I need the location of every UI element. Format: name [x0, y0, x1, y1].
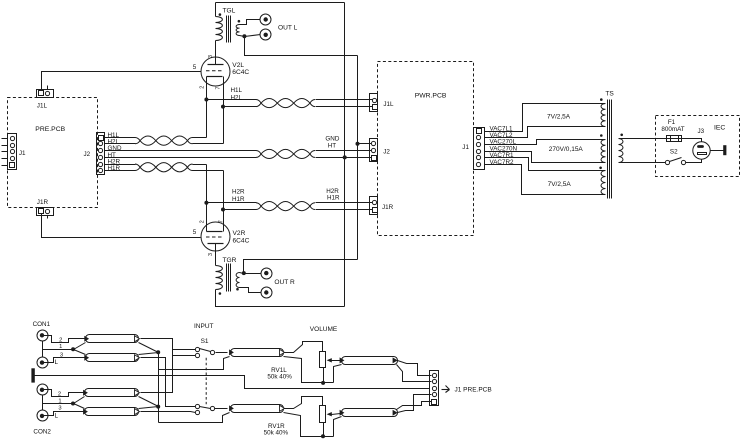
tube V2L cathode [207, 77, 224, 144]
svg-text:50k 40%: 50k 40% [264, 429, 289, 436]
svg-text:J1: J1 [19, 150, 26, 157]
wire TS primary to S2 [619, 162, 666, 164]
wire A2 to S1 pole2 [141, 358, 196, 407]
svg-text:7: 7 [216, 87, 222, 90]
svg-text:H1R: H1R [108, 165, 121, 172]
tube V2L plate [208, 41, 224, 65]
node cable shield junction left top [156, 350, 160, 354]
transformer TGR primary winding [216, 266, 345, 307]
transformer TGL core [227, 16, 231, 43]
connector J1R PRE.PCB [37, 208, 54, 216]
node output ground junction at J2 [356, 142, 360, 146]
wire HT right vertical [344, 3, 346, 307]
wire C1 signal to RV1L top [285, 342, 323, 353]
wire shield vertical bus [158, 353, 160, 423]
connector OUT L bottom jack [260, 29, 271, 40]
svg-text:7: 7 [219, 220, 225, 223]
wire S1 pole1 to cable C1 [216, 352, 228, 354]
svg-text:J1L: J1L [37, 103, 48, 110]
svg-text:2: 2 [199, 86, 205, 89]
wire fuse to J3 [682, 139, 702, 142]
wire D1 signal to J1 pin1 [398, 361, 432, 376]
wire D1 shield to J1 pin2 [397, 365, 432, 382]
TS polarity dot sec2 [600, 134, 603, 137]
wire CON2 ground link [42, 396, 44, 411]
IEC inlet box outline [656, 116, 740, 177]
fuse F1 [667, 136, 682, 142]
cable C1 shielded [231, 349, 284, 357]
connector J1R PWR.PCB [370, 197, 378, 215]
wire HT top rail [216, 2, 345, 4]
wire VAC7R2 [485, 165, 606, 195]
tube V2L grid [206, 70, 224, 72]
potentiometer RV1R [320, 406, 326, 423]
cable D1 shielded [342, 357, 398, 365]
svg-text:3: 3 [58, 406, 61, 412]
connector CON2 jack top [37, 384, 48, 395]
wire RV1L bottom lead [323, 368, 325, 383]
node OUT L ground junction [242, 34, 246, 38]
wire A1 B1 to S1 pole1 [141, 339, 173, 393]
svg-text:3: 3 [60, 352, 63, 358]
PRE.PCB board outline [8, 98, 98, 208]
connector CON2 jack bottom [37, 410, 48, 421]
wire C2 shield to ground rail [284, 413, 334, 437]
svg-text:J1L: J1L [383, 101, 394, 108]
node cable shield junction left bottom [156, 405, 160, 409]
transformer TS secondary 270V [601, 140, 606, 163]
connector CON1 jack top [37, 330, 48, 341]
wire J1R stub [47, 216, 49, 219]
wire S1 pole2 to cable C2 [215, 408, 228, 410]
cable C2 shielded [231, 405, 284, 413]
tube V2L envelope [201, 57, 230, 86]
svg-text:L: L [55, 359, 59, 366]
svg-text:HT: HT [328, 143, 337, 150]
svg-text:2: 2 [199, 220, 205, 223]
cable B1 shielded [85, 389, 139, 397]
wire S2 to J3 [686, 160, 702, 163]
transformer TGR core [227, 264, 231, 292]
node RV1R ground junction [321, 434, 325, 438]
wire OUT L bottom jack to junction [245, 35, 261, 37]
wire twisted pair H2R H1R to PWR.PCB [207, 202, 373, 211]
svg-text:50k 40%: 50k 40% [267, 373, 292, 380]
svg-text:H1L: H1L [231, 87, 243, 94]
svg-text:J1: J1 [462, 144, 469, 151]
wire CON1 shield diagonals [74, 343, 86, 355]
wire VAC270N [485, 152, 606, 163]
wiper RV1L [327, 358, 341, 362]
connector CON1 jack bottom [37, 357, 48, 368]
connector OUT L top jack [260, 14, 271, 25]
svg-text:7V/2,5A: 7V/2,5A [548, 181, 572, 188]
cable B2 shielded [85, 408, 139, 416]
svg-text:J1R: J1R [382, 204, 394, 211]
svg-text:H1R: H1R [327, 195, 340, 202]
svg-text:H1R: H1R [232, 196, 245, 203]
wire twisted pair H1L H2L to PWR.PCB [207, 98, 373, 107]
tube V2R grid [206, 236, 224, 238]
svg-text:TGR: TGR [223, 257, 237, 264]
switch S1 link dashed [205, 358, 207, 404]
svg-text:2: 2 [58, 392, 61, 398]
transformer TS core [608, 100, 612, 199]
transformer TGR secondary winding [236, 273, 260, 293]
wire J1 stubs [2, 139, 8, 166]
TGR polarity dot primary [219, 292, 222, 295]
connector J2 PRE.PCB [97, 133, 105, 175]
wire twisted pair H2R H1R from J2 [105, 163, 224, 210]
connector J1 PWR.PCB right [474, 128, 485, 170]
wire CON1 ground link [42, 341, 44, 358]
svg-text:IEC: IEC [714, 125, 725, 132]
wire S1 pole1 contact1 feed [173, 349, 196, 351]
switch S2 [665, 158, 685, 165]
node CON2 shield junction [71, 402, 75, 406]
svg-text:270V/0,15A: 270V/0,15A [549, 146, 584, 153]
wire GND HT twisted pair [105, 149, 372, 158]
svg-text:PRE.PCB: PRE.PCB [35, 126, 65, 133]
node H1L junction at tube [204, 98, 208, 102]
svg-text:800mAT: 800mAT [661, 126, 684, 133]
wire B2 to S1 pole2 [141, 412, 196, 413]
PWR.PCB board outline [378, 62, 474, 236]
node H1R junction at tube [221, 208, 225, 212]
svg-text:J1R: J1R [37, 199, 49, 206]
connector J3 IEC inlet [693, 142, 710, 159]
wire VAC7L1 [485, 104, 606, 132]
svg-text:3: 3 [208, 253, 214, 256]
svg-text:5: 5 [193, 229, 197, 236]
IEC earth pin [723, 145, 726, 155]
wire CON1 bottom signal [48, 358, 85, 363]
wire J1R to V2R grid [42, 214, 201, 238]
svg-text:5: 5 [193, 64, 197, 71]
potentiometer RV1L [320, 352, 326, 368]
wire RV1R bottom lead [323, 423, 325, 437]
wire CON2 shield diagonals [74, 397, 85, 409]
tube V2R envelope [201, 222, 230, 251]
wire CON2 ground to shield node [43, 403, 74, 405]
cable A1 shielded [86, 335, 139, 343]
TGL polarity dot secondary [238, 20, 241, 23]
wire ground bus [35, 376, 430, 389]
wire TS primary to fuse [619, 138, 667, 140]
connector J1 PRE.PCB bottom [430, 371, 439, 406]
svg-text:F1: F1 [668, 119, 676, 126]
wire VAC7L2 [485, 127, 606, 138]
svg-text:V2R: V2R [233, 230, 246, 237]
chassis ground bar [31, 368, 34, 382]
wiper RV1R [327, 412, 341, 416]
node H2L junction at tube [221, 105, 225, 109]
TGL polarity dot primary [219, 13, 222, 16]
wire CON2 bottom signal [48, 412, 84, 416]
wire twisted pair H1L H2L from J2 [105, 136, 224, 145]
wire output ground vertical [357, 56, 359, 260]
wire J1L stub [47, 86, 49, 90]
node RV1L ground junction [321, 381, 325, 385]
wire output ground right riser [244, 260, 358, 274]
cable A2 shielded [86, 354, 139, 362]
node H2R junction at tube [204, 201, 208, 205]
TS polarity dot sec3 [599, 167, 602, 170]
node HT junction [343, 155, 347, 159]
svg-text:S2: S2 [670, 149, 678, 156]
wire VAC7R1 [485, 158, 606, 171]
wire CON1 ground to shield node [43, 349, 74, 351]
svg-text:CON1: CON1 [33, 321, 51, 328]
svg-text:J3: J3 [698, 128, 705, 135]
connector J1 PRE.PCB [8, 134, 17, 170]
svg-text:H2L: H2L [231, 94, 243, 101]
tube V2R plate [208, 244, 224, 266]
wire C2 signal to RV1R top [285, 397, 323, 409]
svg-text:7V/2,5A: 7V/2,5A [547, 114, 571, 121]
wire J1L to V2L grid [42, 72, 201, 91]
svg-text:J2: J2 [84, 151, 91, 158]
wire shield link to cable C1 [159, 357, 230, 370]
wire C1 shield to ground rail [284, 357, 334, 383]
svg-text:H2R: H2R [232, 188, 245, 195]
svg-text:J1 PRE.PCB: J1 PRE.PCB [455, 387, 492, 394]
transformer TS secondary 7V bottom [601, 171, 606, 195]
svg-text:PWR.PCB: PWR.PCB [415, 93, 447, 100]
wire B cable shields to junction [139, 397, 159, 409]
connector OUT R bottom jack [261, 287, 272, 298]
wire J3 earth lead [711, 150, 724, 152]
TGR polarity dot secondary [236, 288, 239, 291]
wire V2L grid lead [42, 71, 201, 73]
svg-text:1: 1 [59, 344, 62, 350]
wire PWR J2 pin1 to output ground [358, 143, 372, 145]
svg-text:VOLUME: VOLUME [310, 326, 338, 333]
node CON1 shield junction [71, 347, 75, 351]
switch S1 pole2 [195, 404, 214, 414]
transformer TS primary winding [619, 139, 624, 163]
transformer TS secondary 7V top [601, 104, 606, 127]
cable D2 shielded [342, 409, 398, 417]
svg-text:S1: S1 [201, 338, 209, 345]
wire CON2 top signal [48, 390, 84, 397]
svg-text:3: 3 [208, 55, 214, 58]
svg-text:2: 2 [59, 338, 62, 344]
svg-text:TGL: TGL [223, 7, 236, 14]
svg-text:OUT L: OUT L [278, 25, 298, 32]
arrow to J1 PRE.PCB [442, 386, 450, 393]
tube V2R cathode [207, 203, 224, 232]
svg-text:J2: J2 [383, 149, 390, 156]
wire ground rail to cable D2 shield [334, 417, 342, 437]
connector J1L PWR.PCB [370, 94, 378, 112]
wire D2 shield to J1 pin5 [397, 402, 432, 410]
wire ground rail to cable D1 shield [334, 365, 342, 383]
connector J1L PRE.PCB [37, 90, 54, 98]
svg-text:1: 1 [58, 398, 61, 404]
svg-text:6C4C: 6C4C [232, 69, 249, 76]
svg-text:6C4C: 6C4C [233, 237, 250, 244]
TS polarity dot sec1 [600, 98, 603, 101]
wire CON1 top signal [48, 336, 85, 343]
TS polarity dot primary [620, 134, 623, 137]
connector OUT R top jack [261, 268, 272, 279]
wire OUT R junction to jack [244, 273, 261, 275]
svg-text:GND: GND [325, 136, 339, 143]
node OUT R ground junction [242, 271, 246, 275]
transformer TGL secondary winding [236, 20, 260, 37]
svg-text:L: L [55, 413, 59, 420]
svg-text:TS: TS [605, 90, 614, 97]
wire VAC270L [485, 140, 606, 145]
transformer TGL primary winding [216, 3, 223, 41]
connector J2 PWR.PCB [370, 139, 378, 162]
svg-text:OUT R: OUT R [274, 279, 295, 286]
svg-text:CON2: CON2 [33, 429, 51, 436]
wire A cable shields to junction [139, 343, 159, 355]
wire D2 signal to J1 pin4 [398, 395, 432, 413]
wire S1 pole1 contact2 feed [173, 355, 196, 357]
svg-text:INPUT: INPUT [194, 323, 214, 330]
switch S1 pole1 [195, 347, 214, 357]
wire output ground left drop [245, 37, 358, 56]
wire shield link to cable C2 [159, 413, 230, 423]
